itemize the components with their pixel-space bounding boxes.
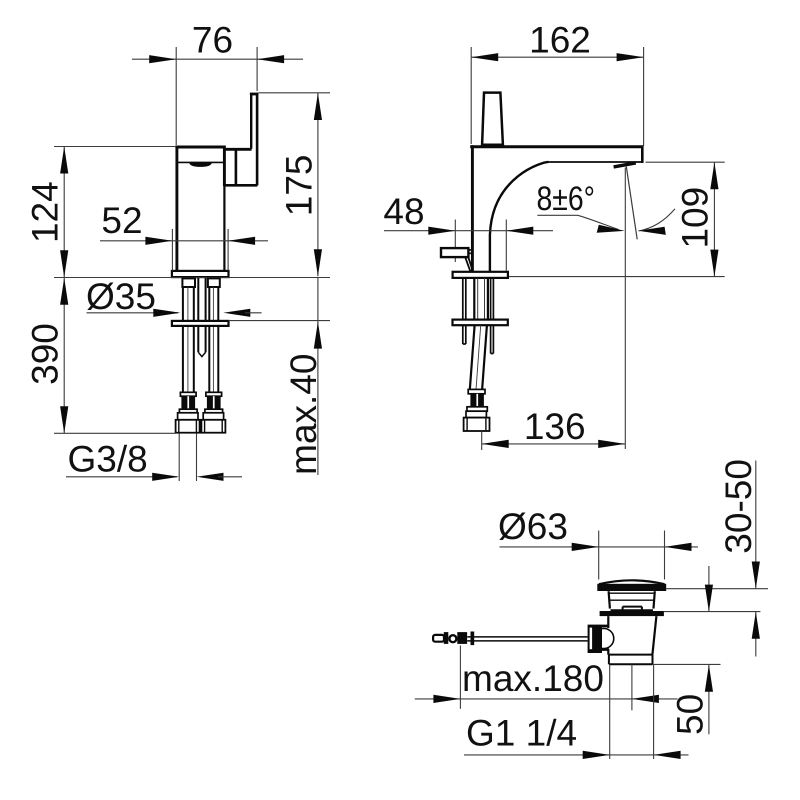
right hose walls	[209, 287, 218, 392]
svg-text:175: 175	[279, 155, 320, 217]
dim max.40 up arrow	[314, 322, 322, 349]
right connector nut body	[201, 420, 225, 433]
left hose crimp step2	[179, 409, 197, 413]
dim 48 line	[384, 230, 553, 232]
G3/8 leader line	[54, 432, 176, 434]
body left edge	[471, 145, 474, 271]
aerator slanted mark	[614, 163, 636, 167]
dim O35 right tail	[245, 312, 262, 314]
drain body left edge	[607, 616, 609, 655]
hose below flange	[470, 325, 487, 389]
dim 162 line	[471, 56, 643, 58]
dim 109 top ext	[646, 161, 725, 163]
dim 175 bottom arrow	[314, 249, 322, 276]
plug neck trapezoid	[609, 591, 655, 608]
pop-up rod slanted	[465, 257, 473, 271]
dim 48 right arrow	[506, 227, 533, 235]
dim 124 top arrow	[60, 147, 68, 174]
dim G1 1/4 line	[464, 754, 689, 756]
rod end block2	[457, 632, 467, 644]
dim O63 ext lines	[599, 531, 665, 580]
dim max.180 ext line rod	[459, 646, 461, 709]
dim 109 line	[713, 162, 715, 276]
faucet body right edge lower	[223, 186, 225, 271]
svg-text:50: 50	[670, 694, 711, 735]
dim 136 line	[482, 443, 626, 445]
handle blade trapezoid	[482, 93, 503, 145]
svg-text:Ø35: Ø35	[86, 276, 156, 317]
base plate side	[453, 272, 508, 278]
knob stem lines	[468, 250, 471, 253]
dim G1 1/4 right arrow	[654, 751, 681, 759]
dim G1 1/4 ext lines	[610, 665, 654, 760]
G3/8 ext lines	[179, 434, 196, 482]
faucet body left edge	[175, 146, 178, 272]
dim O63 left arrow	[572, 543, 599, 551]
faucet body top line	[175, 146, 225, 149]
hose inner line	[476, 325, 481, 389]
base plate	[172, 271, 229, 277]
dim G3/8 line left	[66, 476, 177, 478]
dim G1 1/4 left arrow	[583, 751, 610, 759]
rod ring	[449, 635, 456, 642]
tailpiece bottom band	[609, 655, 653, 665]
handle blade / mount right edge	[256, 93, 259, 186]
svg-text:G3/8: G3/8	[68, 438, 148, 479]
flange top extension line	[664, 611, 760, 613]
right hose inner line	[212, 287, 214, 392]
lever rod lines	[467, 637, 587, 641]
svg-text:8±6°: 8±6°	[537, 180, 596, 218]
shank break notch	[198, 352, 205, 356]
svg-text:76: 76	[192, 20, 233, 61]
left connector nut body	[176, 420, 200, 433]
ball joint block	[588, 625, 602, 653]
dim max.180 right arrow	[632, 695, 659, 703]
dim 50 up arrow	[705, 665, 713, 692]
angle arc right	[639, 209, 675, 231]
svg-text:max.180: max.180	[462, 658, 604, 699]
body top line	[470, 145, 643, 148]
left stud tube	[463, 278, 466, 344]
dim 109 top arrow	[710, 162, 718, 189]
handle blade top cap	[250, 93, 258, 96]
dim 76 right arrow	[257, 55, 284, 63]
hose crimp dark band side	[470, 394, 484, 407]
FIG3 drain assembly	[415, 459, 768, 759]
counter line	[54, 277, 330, 279]
angle arc arrowhead	[638, 227, 666, 235]
dim O63 line	[500, 546, 699, 548]
left hose inner line	[187, 287, 189, 392]
dim max.180 left arrow	[433, 695, 460, 703]
svg-text:136: 136	[524, 406, 586, 447]
step line body to handle	[224, 148, 251, 151]
dim 76 left arrow	[149, 55, 176, 63]
pop-up knob	[441, 248, 468, 257]
svg-text:390: 390	[25, 323, 66, 385]
dim max.40 line	[317, 278, 319, 476]
body top-left extension	[54, 146, 176, 148]
plug neck lines	[609, 593, 655, 600]
dim 30-50 line lower	[755, 612, 757, 657]
dim 136 right arrow	[598, 440, 625, 448]
dim 48 left arrow	[428, 227, 455, 235]
right stud tube	[491, 278, 494, 353]
plug neck feet	[611, 607, 654, 611]
hose crimp step2 side	[467, 407, 487, 411]
angle leader line	[537, 215, 618, 229]
dim O35 right arrow	[223, 309, 250, 317]
svg-text:30-50: 30-50	[718, 459, 759, 554]
dim 109 bottom ext	[509, 276, 725, 278]
plug cap dome	[599, 580, 665, 584]
left hose crimp dark band	[181, 396, 195, 409]
spout band bottom line	[176, 161, 224, 163]
cap underside extension line	[666, 588, 768, 590]
dim 30-50 line upper	[755, 461, 757, 589]
left hose crimp step1	[180, 392, 196, 396]
drain flange bar	[600, 611, 664, 616]
handle mount block	[224, 150, 257, 185]
dim G3/8 left arrow	[152, 473, 179, 481]
ball joint bulge	[602, 628, 614, 648]
dim O35 left arrow	[153, 309, 180, 317]
shank inner lines	[478, 278, 485, 320]
dim 52 right arrow	[228, 237, 255, 245]
spout underside line	[547, 161, 641, 163]
tailpiece bottom extension line	[653, 663, 721, 665]
dim 48 ext lines	[455, 220, 506, 271]
dim 136 ext line	[481, 432, 483, 451]
dim 175 line	[317, 93, 319, 276]
svg-text:48: 48	[383, 191, 424, 232]
dim 52 ext lines	[172, 229, 228, 271]
plug cap rim band	[597, 584, 666, 591]
right hose crimp step1	[206, 392, 222, 396]
dim O63 right arrow	[665, 543, 692, 551]
dim 162 ext lines	[471, 47, 643, 146]
connector nut top side	[466, 411, 486, 417]
dim 30-50 down arrow	[752, 562, 760, 589]
aerator axis extension line	[624, 168, 626, 450]
hose crimp step1 side	[468, 389, 485, 393]
svg-text:52: 52	[101, 200, 142, 241]
drain body right edge slanted	[652, 616, 656, 655]
faucet body right edge upper	[223, 146, 226, 187]
dim 162 left arrow	[471, 53, 498, 61]
flange bar side	[453, 320, 508, 326]
dim G3/8 right tail	[218, 476, 242, 478]
dim 109 bottom arrow	[710, 250, 718, 277]
spout tip right edge	[641, 146, 644, 164]
svg-text:G1 1/4: G1 1/4	[466, 713, 577, 754]
angle leader arrowhead	[597, 225, 625, 233]
svg-text:Ø63: Ø63	[498, 506, 568, 547]
joint connector lines	[602, 626, 609, 650]
rod crossbar	[471, 632, 475, 646]
center shank tube	[198, 278, 205, 352]
svg-text:162: 162	[529, 20, 591, 61]
rod end block1	[444, 632, 449, 644]
right supply stub	[208, 278, 220, 287]
right connector nut top	[203, 413, 223, 420]
right hose crimp dark band	[207, 396, 221, 409]
FIG1 front view	[25, 20, 330, 482]
dim 76 ext lines	[176, 47, 257, 145]
dim 124 bottom arrow	[60, 250, 68, 277]
handle blade left edge	[250, 93, 252, 149]
dim O35 line left	[87, 312, 179, 314]
water stream line	[626, 167, 637, 240]
left supply stub	[182, 278, 195, 287]
dim 390 top arrow	[60, 278, 68, 305]
spout under curve	[490, 162, 549, 271]
dim 175 top extension	[259, 92, 331, 94]
dim max.180 line	[415, 698, 678, 700]
svg-text:109: 109	[675, 187, 716, 249]
rod end cap	[433, 635, 444, 642]
dim 124/390 line	[63, 147, 65, 434]
left hose walls	[183, 287, 194, 392]
dim 52 line	[100, 240, 268, 242]
FIG2 side view	[383, 20, 724, 451]
dim 30-50 up arrow	[752, 612, 760, 639]
connector nut body side	[464, 418, 490, 431]
aerator dark lens	[189, 163, 212, 167]
dim 50 down arrow	[705, 585, 713, 612]
dim 390 bottom arrow	[60, 406, 68, 433]
dim G3/8 right arrow	[197, 473, 224, 481]
dim 50 line upper	[708, 566, 710, 612]
dim 76 line	[132, 58, 303, 60]
flange top extension line	[229, 320, 331, 322]
left connector nut top	[178, 413, 198, 420]
dim max.180 ext line drain axis	[631, 665, 633, 711]
dim 50 line lower	[708, 665, 710, 735]
shank walls	[474, 278, 488, 320]
dim 175 top arrow	[314, 93, 322, 120]
mounting flange bar	[172, 321, 229, 326]
dim 162 right arrow	[617, 53, 644, 61]
svg-text:124: 124	[25, 181, 66, 243]
right hose crimp step2	[205, 409, 223, 413]
dim 136 left arrow	[482, 440, 509, 448]
dim 52 left arrow	[145, 237, 172, 245]
